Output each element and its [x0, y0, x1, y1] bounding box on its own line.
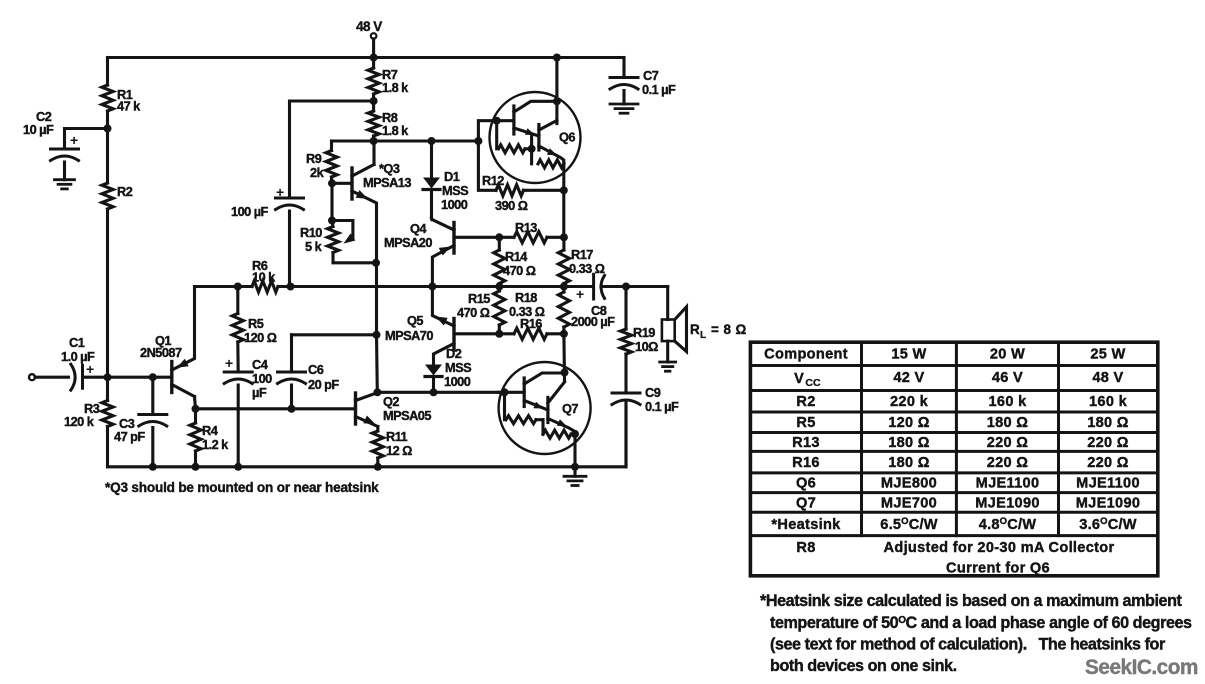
ground C2	[55, 180, 75, 189]
svg-text:120 Ω: 120 Ω	[244, 330, 277, 345]
transistor Q7 first	[524, 373, 564, 410]
wire Q7 base inside	[499, 391, 525, 394]
svg-text:MJE700: MJE700	[881, 496, 937, 512]
svg-text:R16: R16	[520, 316, 542, 331]
resistor R18	[509, 287, 570, 334]
resistor R6	[252, 258, 278, 292]
svg-text:SeekIC.com: SeekIC.com	[1085, 656, 1198, 679]
label Q6	[559, 130, 575, 145]
svg-text:2k: 2k	[310, 165, 325, 180]
svg-text:1000: 1000	[444, 374, 471, 389]
svg-text:MJE1090: MJE1090	[1076, 496, 1141, 512]
watermark SeekIC.com	[1085, 656, 1198, 679]
node Q2 collector	[373, 388, 381, 396]
node R4 bottom rail	[192, 463, 200, 471]
svg-text:12 Ω: 12 Ω	[386, 443, 412, 458]
node Q6 collectors	[553, 97, 561, 105]
svg-text:1.8 k: 1.8 k	[382, 80, 409, 95]
svg-text:220 Ω: 220 Ω	[987, 455, 1029, 471]
node R15 bottom	[495, 330, 503, 338]
resistor R10 potentiometer	[300, 183, 376, 262]
svg-text:R2: R2	[796, 394, 815, 410]
svg-text:3.6OC/W: 3.6OC/W	[1079, 516, 1136, 533]
svg-text:C6: C6	[308, 362, 324, 377]
transistor Q3	[352, 161, 411, 263]
svg-text:R12: R12	[482, 173, 504, 188]
svg-text:10 k: 10 k	[252, 270, 276, 285]
transistor Q5	[385, 287, 454, 365]
capacitor C100uF	[231, 184, 304, 287]
node C6 rail tap	[373, 331, 381, 339]
capacitor C4	[224, 355, 272, 467]
transistor Q1	[140, 333, 195, 397]
resistor R7	[368, 58, 409, 102]
wire input node rail	[83, 376, 172, 379]
svg-text:1000: 1000	[441, 197, 468, 212]
svg-text:MJE1090: MJE1090	[975, 496, 1040, 512]
svg-text:R9: R9	[306, 151, 322, 166]
svg-text:10 µF: 10 µF	[23, 122, 54, 137]
svg-text:temperature of 50OC and a load: temperature of 50OC and a load phase ang…	[770, 614, 1192, 632]
svg-text:390 Ω: 390 Ω	[495, 198, 528, 213]
node output	[622, 283, 630, 291]
svg-text:R5: R5	[248, 316, 264, 331]
svg-text:R4: R4	[202, 423, 219, 438]
svg-text:MJE1100: MJE1100	[1076, 476, 1140, 492]
table grid	[750, 342, 1157, 576]
resistor R15	[457, 287, 505, 334]
resistor R1	[102, 58, 141, 129]
resistor R8	[368, 101, 409, 141]
node R8 bottom	[370, 137, 378, 145]
svg-text:15 W: 15 W	[891, 347, 926, 363]
transistor Q2	[356, 393, 432, 427]
svg-text:10Ω: 10Ω	[635, 339, 658, 354]
transistor Q6 first	[514, 101, 557, 136]
wire Q1 collector down	[195, 397, 196, 409]
wire Q6 base entry	[478, 121, 514, 141]
capacitor C7	[610, 58, 676, 105]
table text	[764, 347, 1140, 577]
svg-text:470 Ω: 470 Ω	[503, 263, 536, 278]
svg-text:D1: D1	[444, 169, 460, 184]
resistor R2	[102, 129, 133, 378]
svg-text:0.1 µF: 0.1 µF	[642, 82, 676, 97]
svg-text:20 W: 20 W	[990, 347, 1025, 363]
node C3 tap	[149, 373, 157, 381]
svg-text:Current for Q6: Current for Q6	[946, 561, 1050, 577]
svg-text:48 V: 48 V	[1092, 370, 1123, 386]
resistor R17	[558, 237, 604, 286]
ground speaker	[660, 362, 676, 371]
svg-text:R19: R19	[633, 325, 655, 340]
svg-text:Q5: Q5	[407, 313, 423, 328]
svg-text:*Heatsink size calculated is b: *Heatsink size calculated is based on a …	[760, 592, 1183, 610]
speaker RL	[662, 287, 747, 363]
svg-text:Q6: Q6	[796, 476, 816, 492]
svg-text:R18: R18	[515, 290, 537, 305]
svg-text:0.33 Ω: 0.33 Ω	[569, 261, 605, 276]
wire mid rail left	[195, 285, 253, 288]
node bootstrap/100uF	[287, 283, 295, 291]
svg-text:180 Ω: 180 Ω	[1087, 415, 1129, 431]
node C4 bottom rail	[234, 463, 242, 471]
transistor Q7 package circle	[499, 362, 591, 454]
capacitor C1	[61, 335, 95, 390]
svg-text:470 Ω: 470 Ω	[457, 305, 490, 320]
resistor R11	[372, 427, 412, 467]
svg-text:+: +	[225, 355, 233, 371]
node R16 right	[560, 330, 568, 338]
node R9/R10/Q3 base	[328, 179, 336, 187]
wire Q4 collector	[430, 218, 434, 220]
svg-text:C7: C7	[643, 68, 659, 83]
svg-text:R10: R10	[300, 225, 322, 240]
power terminal 48V	[356, 19, 382, 58]
resistor Q7 internal RA	[505, 392, 544, 423]
svg-text:+: +	[276, 184, 284, 200]
node input/R3	[104, 373, 112, 381]
svg-text:CC: CC	[805, 377, 821, 389]
node R14 mid rail	[495, 283, 503, 291]
node R13/R14/Q4	[495, 233, 503, 241]
node D2 bottom	[430, 388, 438, 396]
resistor Q6 internal RB	[532, 149, 564, 168]
node R12 right	[560, 186, 568, 194]
node R17 mid rail	[560, 283, 568, 291]
svg-text:100 µF: 100 µF	[231, 204, 269, 219]
svg-text:6.5OC/W: 6.5OC/W	[880, 516, 937, 533]
node C6 bottom	[288, 405, 296, 413]
svg-text:Ω: Ω	[736, 322, 747, 337]
capacitor C3	[114, 377, 167, 467]
svg-text:42 V: 42 V	[893, 370, 924, 386]
svg-text:120 Ω: 120 Ω	[888, 415, 930, 431]
diode D1	[423, 141, 469, 218]
node Q7 emitter join	[571, 430, 579, 438]
resistor R12	[478, 141, 563, 213]
svg-text:both devices on one sink.: both devices on one sink.	[770, 657, 957, 675]
svg-text:MPSA20: MPSA20	[384, 235, 432, 250]
svg-text:160 k: 160 k	[1089, 394, 1128, 410]
svg-text:20 pF: 20 pF	[308, 377, 339, 392]
node Q7 collectors	[561, 369, 569, 377]
node R5 tap	[234, 283, 242, 291]
svg-text:(see text for method of calcul: (see text for method of calculation). Th…	[770, 636, 1166, 654]
resistor R16	[499, 316, 564, 339]
svg-text:220 Ω: 220 Ω	[987, 435, 1029, 451]
svg-text:8: 8	[724, 322, 732, 337]
svg-text:L: L	[700, 330, 706, 341]
svg-text:R13: R13	[515, 220, 537, 235]
svg-text:180 Ω: 180 Ω	[987, 415, 1029, 431]
resistor R19	[620, 287, 658, 394]
svg-text:Q7: Q7	[562, 401, 578, 416]
transistor Q6 second	[539, 121, 564, 165]
input terminal	[29, 374, 69, 380]
node R10 return	[328, 217, 336, 225]
svg-text:220 Ω: 220 Ω	[1087, 455, 1129, 471]
svg-text:Adjusted for 20-30 mA Collecto: Adjusted for 20-30 mA Collector	[884, 540, 1115, 556]
svg-text:5 k: 5 k	[305, 239, 323, 254]
wire top supply rail	[108, 56, 625, 59]
svg-text:R16: R16	[792, 455, 820, 471]
svg-text:D2: D2	[446, 346, 462, 361]
wire C2 branch	[65, 129, 108, 150]
svg-text:MPSA70: MPSA70	[385, 328, 433, 343]
node D1 top	[428, 137, 436, 145]
svg-text:*Q3 should be mounted on or ne: *Q3 should be mounted on or near heatsin…	[105, 480, 379, 495]
resistor R14	[494, 237, 536, 286]
node Q6 base branch	[474, 137, 482, 145]
svg-text:C9: C9	[645, 385, 661, 400]
node C3 bottom rail	[149, 463, 157, 471]
transistor Q4	[384, 220, 454, 287]
svg-text:100: 100	[252, 371, 272, 386]
wire Q6 collector drop	[555, 58, 558, 124]
wire Q3 base	[332, 182, 352, 185]
svg-text:R: R	[690, 322, 700, 337]
footnote heatsink	[760, 592, 1192, 675]
wire bias rail	[332, 139, 479, 142]
svg-text:180 Ω: 180 Ω	[888, 455, 930, 471]
svg-text:47 k: 47 k	[117, 99, 141, 114]
svg-text:C1: C1	[69, 335, 85, 350]
svg-text:2000 µF: 2000 µF	[571, 314, 615, 329]
resistor R5	[232, 287, 277, 373]
svg-text:R8: R8	[796, 540, 815, 556]
svg-text:R15: R15	[468, 291, 490, 306]
wire Q7 emitter down	[573, 432, 576, 467]
capacitor C9	[612, 385, 679, 467]
svg-text:Component: Component	[764, 347, 848, 363]
svg-text:2N5087: 2N5087	[140, 345, 182, 360]
node Q7 base tap	[501, 388, 509, 396]
svg-text:MJE1100: MJE1100	[976, 476, 1040, 492]
wire R7R8 junction to 100uF	[290, 101, 374, 198]
svg-text:V: V	[794, 371, 804, 387]
wire Q3 collector up	[372, 141, 375, 165]
svg-text:220 k: 220 k	[890, 394, 929, 410]
node R7/R8	[370, 97, 378, 105]
svg-text:MPSA13: MPSA13	[363, 175, 411, 190]
svg-text:47 pF: 47 pF	[114, 429, 145, 444]
wire Q4 base	[454, 236, 499, 239]
resistor Q7 internal RB	[543, 420, 575, 439]
svg-text:48 V: 48 V	[356, 19, 382, 34]
resistor R4	[190, 409, 229, 467]
node Q4Q5 emitters	[428, 283, 436, 291]
node Q1 collector/R4	[192, 405, 200, 413]
capacitor C6	[278, 335, 340, 409]
wire Q6 emitter down	[562, 164, 565, 238]
svg-text:R5: R5	[796, 415, 815, 431]
wire Q7 base rail	[377, 391, 498, 394]
capacitor C2	[23, 109, 79, 180]
svg-text:180 Ω: 180 Ω	[888, 435, 930, 451]
svg-text:+: +	[576, 286, 584, 302]
wire Q7 collector drop	[562, 334, 566, 381]
svg-text:C4: C4	[252, 357, 269, 372]
wire C6 top rail	[292, 333, 377, 336]
svg-text:160 k: 160 k	[988, 394, 1027, 410]
wire Q1 emitter up	[193, 287, 196, 358]
svg-text:+: +	[70, 132, 78, 148]
svg-text:R17: R17	[571, 247, 593, 262]
node R11 bottom rail	[374, 463, 382, 471]
svg-text:MJE800: MJE800	[881, 476, 937, 492]
node R13 right	[560, 233, 568, 241]
wire mid rail center	[291, 285, 433, 288]
svg-text:R11: R11	[386, 429, 408, 444]
node R1/R2/C2	[104, 125, 112, 133]
svg-text:MSS: MSS	[442, 183, 469, 198]
resistor R9	[306, 141, 337, 183]
svg-text:=: =	[711, 322, 719, 337]
label Q7	[562, 401, 578, 416]
svg-text:+: +	[86, 361, 94, 377]
svg-text:220 Ω: 220 Ω	[1087, 435, 1129, 451]
svg-text:Q6: Q6	[559, 130, 575, 145]
svg-text:1.8 k: 1.8 k	[382, 123, 409, 138]
svg-text:MPSA05: MPSA05	[383, 408, 431, 423]
resistor Q6 internal RA	[497, 121, 532, 153]
svg-text:*Q3: *Q3	[379, 161, 400, 176]
ground main	[564, 467, 586, 486]
wire C6 column lower	[375, 335, 379, 393]
svg-text:Q4: Q4	[410, 221, 427, 236]
transistor Q6 package circle	[490, 92, 581, 183]
svg-text:µF: µF	[252, 385, 267, 400]
node 48V on top rail	[370, 54, 378, 62]
svg-text:R2: R2	[117, 184, 133, 199]
diode D2	[425, 346, 472, 392]
svg-text:0.1 µF: 0.1 µF	[645, 399, 679, 414]
transistor Q7 second	[548, 382, 575, 432]
resistor R3	[64, 377, 113, 467]
wire Q5 base	[454, 332, 499, 335]
svg-text:R14: R14	[505, 249, 528, 264]
wire R6 to bootstrap node	[278, 285, 291, 288]
svg-text:1.2 k: 1.2 k	[202, 437, 229, 452]
svg-text:4.8OC/W: 4.8OC/W	[979, 516, 1036, 533]
svg-text:Q7: Q7	[796, 496, 816, 512]
svg-text:120 k: 120 k	[64, 414, 95, 429]
wire bottom rail	[108, 403, 627, 467]
wire mid rail right	[432, 285, 592, 288]
ground C7	[610, 104, 638, 113]
svg-text:Q2: Q2	[383, 394, 399, 409]
node Q6 collector on top rail	[553, 54, 561, 62]
svg-text:R13: R13	[792, 435, 820, 451]
wire Q2 base rail	[196, 407, 356, 410]
svg-text:46 V: 46 V	[992, 370, 1023, 386]
node Q3 emitter junction	[372, 259, 380, 267]
node Q6 base resistor tap	[493, 117, 501, 125]
node Q6 internal	[528, 145, 536, 153]
svg-text:*Heatsink: *Heatsink	[771, 517, 841, 533]
resistor R13	[499, 220, 564, 243]
node Q7 emitter ground	[571, 463, 579, 471]
capacitor C8	[571, 274, 668, 329]
svg-text:25 W: 25 W	[1090, 347, 1125, 363]
note Q3 heatsink	[105, 480, 379, 495]
wire Q3 emitter column	[375, 263, 378, 335]
svg-text:MSS: MSS	[445, 360, 472, 375]
